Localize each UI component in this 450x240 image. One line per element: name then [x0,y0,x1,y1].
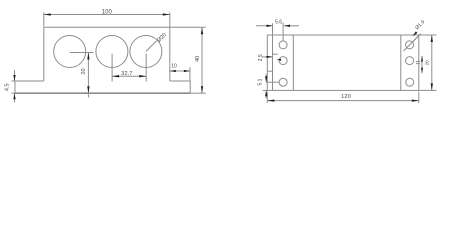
svg-text:20: 20 [425,60,430,66]
svg-text:5.6: 5.6 [275,20,282,26]
svg-text:32.7: 32.7 [121,71,132,77]
svg-text:4.5: 4.5 [4,83,10,91]
svg-text:40: 40 [195,56,201,62]
svg-text:100: 100 [102,10,113,16]
svg-text:5.1: 5.1 [258,78,264,85]
svg-text:10: 10 [171,63,177,69]
svg-text:2.5: 2.5 [258,54,264,61]
svg-text:20: 20 [81,68,87,74]
svg-text:120: 120 [341,94,351,100]
